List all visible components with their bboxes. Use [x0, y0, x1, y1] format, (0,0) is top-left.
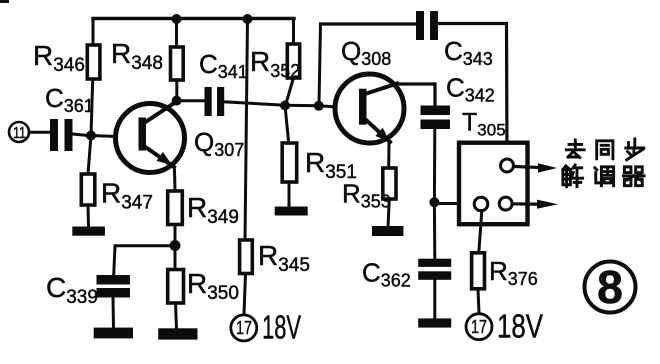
wire: rail drop to R345 (long vertical): [245, 19, 248, 241]
wire: T305 lower-left pin down to R376: [479, 211, 482, 254]
capacitor C339: [46, 272, 130, 308]
terminal 17 (left) with 18V label: [231, 309, 301, 346]
page number 8: [585, 261, 636, 313]
wire: base node down to R351: [285, 106, 289, 144]
wire: C362 to ground: [433, 280, 436, 319]
input terminal 11: [9, 122, 29, 142]
resistor R349: [168, 191, 239, 228]
wire: C339 to ground: [112, 298, 116, 329]
resistor R376: [472, 253, 538, 289]
wire: terminal 11 to C361: [29, 131, 50, 134]
resistor R351: [282, 143, 357, 183]
transistor Q307: [116, 101, 245, 173]
ground under R351: [275, 207, 308, 216]
resistor R350: [168, 268, 239, 304]
svg-text:T305: T305: [462, 109, 506, 140]
wire: node C left to C339: [114, 246, 175, 275]
label: to sync demodulator (line 2): [563, 165, 644, 187]
svg-text:R349: R349: [187, 192, 239, 228]
capacitor C342: [421, 73, 495, 130]
wire: top supply rail: [93, 17, 294, 20]
transformer T305: [459, 109, 528, 225]
wire: R353 to ground: [388, 199, 389, 227]
svg-text:C342: C342: [446, 73, 495, 106]
capacitor C343: [416, 11, 493, 69]
svg-text:18V: 18V: [497, 308, 543, 345]
junction dot node C: [170, 240, 181, 251]
capacitor C361: [45, 83, 94, 151]
wire: Q307 emitter down to R349: [173, 170, 177, 191]
wire: R350 to ground: [176, 303, 177, 329]
wire: R348 bottom to collector node: [175, 80, 178, 101]
svg-text:R348: R348: [111, 38, 163, 74]
terminal 17 (right) with 18V label: [466, 308, 543, 345]
ground under C339: [94, 328, 133, 339]
junction dot Q307 collector: [172, 96, 182, 106]
ground under C362: [418, 318, 451, 327]
junction dot on rail at R345 line: [243, 14, 253, 24]
T305 pin (bottom left): [474, 197, 488, 211]
svg-text:17: 17: [471, 317, 487, 337]
wire: C343 to T305 top pin: [438, 24, 507, 162]
resistor R347: [81, 174, 153, 214]
wire: rail drop to R348: [175, 19, 178, 48]
wire: R351 to ground: [288, 182, 291, 207]
resistor R348: [111, 38, 183, 80]
wire: R346 bottom to node A: [91, 79, 93, 136]
wire: Q308 emitter down to R353: [387, 144, 390, 168]
svg-text:C339: C339: [46, 272, 98, 308]
svg-text:Q307: Q307: [194, 127, 244, 160]
ground under R350: [158, 328, 197, 339]
wire: R349 to node C: [174, 225, 177, 246]
ground under R353: [372, 226, 403, 236]
svg-text:R347: R347: [101, 178, 153, 214]
wire: Q308 collector to C342: [396, 84, 435, 106]
wire: rail drop to R346: [92, 19, 95, 46]
capacitor C341: [199, 49, 248, 116]
wire: C342 down to node B: [433, 129, 436, 202]
wire: R376 to terminal 17: [478, 289, 479, 313]
transistor Q308: [335, 36, 404, 143]
wire: node B down to C362: [433, 202, 436, 259]
wire: R345 to terminal 17: [244, 274, 246, 315]
resistor R353: [342, 168, 396, 212]
node A junction dot: [86, 131, 96, 141]
arrow: output (bottom): [512, 200, 558, 209]
wire: feedback rail left segment: [321, 22, 417, 25]
svg-text:C341: C341: [199, 49, 248, 82]
wire: node B to T305 lower-left pin: [434, 202, 475, 205]
svg-text:R346: R346: [33, 40, 85, 76]
svg-text:18V: 18V: [262, 309, 301, 346]
junction dot base node (R352/R351): [280, 101, 290, 111]
T305 pin (top right): [501, 159, 514, 172]
svg-text:8: 8: [597, 261, 623, 313]
T305 pin (bottom right): [499, 197, 512, 210]
wire: C361 to node A: [73, 134, 89, 136]
wire: feedback rail drop to base node: [319, 24, 321, 104]
svg-text:C362: C362: [362, 258, 411, 291]
resistor R352: [250, 44, 300, 81]
arrow: output to sync demodulator (top): [514, 163, 558, 172]
wire: rail drop to R352: [292, 19, 295, 45]
wire: node C to R350: [174, 246, 177, 270]
resistor R346: [33, 40, 100, 79]
svg-text:17: 17: [236, 318, 252, 338]
ground under R347: [72, 227, 105, 236]
svg-text:C343: C343: [444, 36, 493, 69]
label: to sync demodulator (line 1): [566, 139, 644, 160]
svg-text:11: 11: [13, 125, 26, 142]
svg-text:R345: R345: [258, 240, 310, 276]
wire: collector node to C341: [177, 99, 205, 102]
junction dot on rail at R348: [172, 14, 182, 24]
wire: C341 to Q308 base (crosses R345 line): [224, 102, 335, 107]
capacitor C362: [362, 258, 451, 291]
wire: R352 bottom to base node: [286, 78, 294, 105]
svg-text:Q308: Q308: [341, 36, 391, 69]
resistor R345: [240, 240, 310, 276]
svg-text:R350: R350: [187, 268, 239, 304]
wire: node A down to R347: [88, 136, 91, 175]
junction dot base node (feedback line): [314, 101, 324, 111]
svg-text:C361: C361: [45, 83, 94, 116]
junction dot node B: [429, 197, 439, 207]
wire: node A to Q307 base: [91, 136, 116, 137]
wire: R347 to ground: [87, 205, 91, 227]
svg-text:R376: R376: [489, 256, 538, 289]
